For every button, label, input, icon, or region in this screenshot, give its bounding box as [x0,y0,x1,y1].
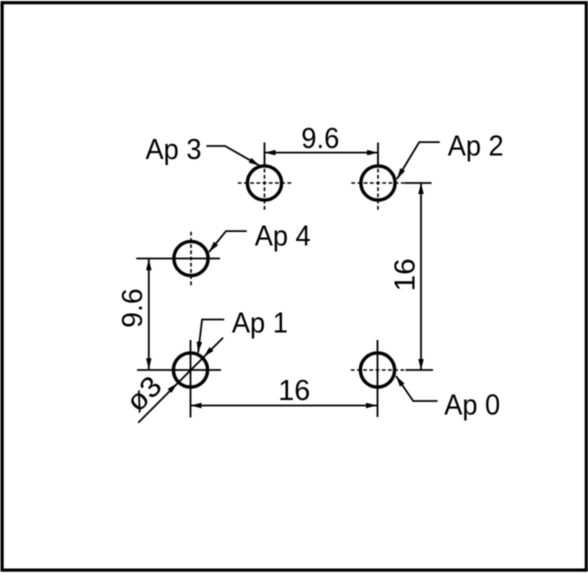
aperture Ap 2 [361,166,395,200]
leader Ap 4 [209,231,247,252]
svg-text:Ap 0: Ap 0 [444,390,500,422]
leader Ap 2 [397,142,440,179]
svg-text:Ap 1: Ap 1 [232,308,288,340]
centerline Ap 0 [351,369,404,371]
aperture Ap 3 [247,166,281,200]
svg-text:16: 16 [278,375,310,407]
svg-text:Ap 3: Ap 3 [146,134,202,166]
dimension 9.6 top [265,143,379,167]
dimension 16 right [405,183,433,370]
svg-text:Ap 2: Ap 2 [448,131,504,163]
aperture Ap 4 [174,241,208,275]
svg-text:9.6: 9.6 [117,288,149,328]
dimension 9.6 left [136,259,221,371]
leader Ap 0 [396,376,438,401]
diameter dimension Φ3 upper arrow [204,347,214,357]
centerline Ap 2 [351,156,404,209]
leader Ap 3 [206,146,259,166]
svg-text:16: 16 [390,258,422,291]
leader Ap 1 [198,320,224,353]
centerline Ap 4 [190,232,192,285]
svg-text:9.6: 9.6 [301,123,339,155]
diameter dimension Φ3 lower arrow [168,383,178,393]
aperture Ap 0 [360,353,394,387]
dimension 16 bottom [191,340,378,418]
svg-text:Ap 4: Ap 4 [255,221,311,253]
diameter dimension Φ3 leader line [138,338,223,423]
centerline Ap 3 [238,156,291,209]
aperture Ap 1 [173,353,207,387]
